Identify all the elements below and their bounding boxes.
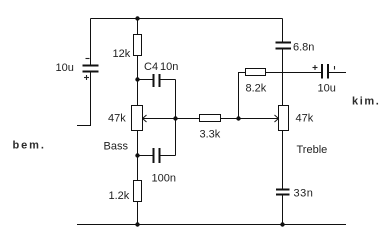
svg-text:6.8n: 6.8n xyxy=(293,42,314,54)
wire 3.3k right lead xyxy=(221,118,239,120)
wire 12k bottom lead xyxy=(137,56,139,80)
wire 100n left lead xyxy=(138,155,153,157)
polarity tick of C5 xyxy=(334,66,336,70)
svg-text:10n: 10n xyxy=(160,61,178,73)
wiper arrow of P1 xyxy=(143,115,147,122)
capacitor C3 6.8n xyxy=(276,43,292,49)
polarity plus of C5 xyxy=(313,65,318,70)
wire top right drop xyxy=(282,19,284,43)
polarity plus of C1 xyxy=(84,75,89,80)
wire C4 right lead to branch corner xyxy=(161,79,176,81)
node branch junction xyxy=(173,116,177,120)
wire branch vertical xyxy=(175,80,177,156)
resistor R1 12k xyxy=(134,35,142,56)
wire 1.2k top lead xyxy=(137,156,139,181)
wire top bus xyxy=(91,18,283,20)
resistor R4 8.2k xyxy=(246,69,266,76)
resistor R2 1.2k xyxy=(134,181,142,202)
svg-text:1.2k: 1.2k xyxy=(109,190,130,202)
wire bass pot bottom lead xyxy=(137,131,139,156)
wire 33n bottom lead xyxy=(282,195,284,225)
svg-text:8.2k: 8.2k xyxy=(246,83,267,95)
wire mid node to treble wiper xyxy=(239,118,279,120)
node junction 100n tap xyxy=(135,153,139,157)
svg-text:10u: 10u xyxy=(318,83,336,95)
svg-text:47k: 47k xyxy=(296,113,314,125)
wire C4 left lead xyxy=(138,79,153,81)
wire 8.2k drop from mid node xyxy=(239,73,246,119)
wire wiper P1 to branch node xyxy=(143,118,176,120)
wire bass pot top lead xyxy=(137,80,139,106)
potentiometer P1 47k Bass body xyxy=(132,106,143,131)
capacitor C1 10u input xyxy=(83,66,99,72)
wire input cap top lead xyxy=(90,19,92,66)
wire output lead xyxy=(329,72,346,74)
svg-text:3.3k: 3.3k xyxy=(200,129,221,141)
capacitor C2 100n xyxy=(154,148,160,163)
svg-text:47k: 47k xyxy=(108,113,126,125)
wire 6.8n to treble pot xyxy=(282,49,284,106)
svg-text:bem.: bem. xyxy=(13,140,46,152)
svg-text:33n: 33n xyxy=(294,188,314,200)
potentiometer P2 47k Treble body xyxy=(279,106,289,131)
svg-text:12k: 12k xyxy=(113,48,131,60)
wiper arrow of P2 xyxy=(275,115,279,122)
wire 8.2k to output cap xyxy=(266,72,322,74)
svg-text:100n: 100n xyxy=(152,173,176,185)
svg-text:Treble: Treble xyxy=(297,144,328,156)
polarity minus of C1 xyxy=(86,58,90,60)
wire treble pot bottom lead xyxy=(282,131,284,190)
wire input cap bottom lead xyxy=(77,72,91,126)
node junction mid xyxy=(236,116,240,120)
wire 100n right lead xyxy=(161,155,176,157)
wire 12k top lead xyxy=(137,19,139,35)
svg-text:10u: 10u xyxy=(56,62,74,74)
svg-text:C4: C4 xyxy=(144,61,158,73)
capacitor C5 10u output xyxy=(322,64,328,79)
node junction top 12k tap xyxy=(135,16,139,20)
node junction bottom left xyxy=(135,222,139,226)
svg-text:kim.: kim. xyxy=(352,96,380,108)
capacitor C4 10n xyxy=(154,74,160,87)
resistor R3 3.3k xyxy=(200,115,221,122)
capacitor C6 33n xyxy=(276,190,290,195)
wire 3.3k left lead xyxy=(176,118,200,120)
wire bottom bus xyxy=(77,224,346,226)
svg-text:Bass: Bass xyxy=(104,141,129,153)
node junction bottom right xyxy=(280,222,284,226)
wire 1.2k bottom lead xyxy=(137,202,139,225)
node junction C4 tap xyxy=(135,77,139,81)
